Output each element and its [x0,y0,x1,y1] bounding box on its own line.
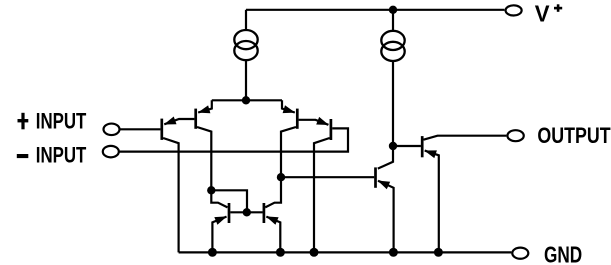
label + INPUT [18,109,87,134]
V+ terminal [506,5,522,15]
wire mirror output to Q7 base [281,176,374,178]
wire mirror bases [230,211,262,213]
- input terminal [103,146,119,158]
wire ground rail [179,251,512,253]
+ input terminal [104,124,120,136]
transistor Q6 (mirror right) [264,203,280,252]
node Q7 collector / I2 / Q8 base junction [389,142,397,150]
transistor Q5 (mirror left, diode-connected) [211,190,229,251]
svg-text:V: V [535,1,550,27]
svg-text:INPUT: INPUT [36,109,87,134]
wire -input to Q3 base [119,128,348,151]
transistor Q7 (driver) [376,146,394,252]
transistor Q1 (+input PNP) [162,119,195,253]
node Q7 emitter [389,248,398,257]
node mirror base junction [243,208,251,216]
node Q6 emitter [276,248,285,257]
svg-text:INPUT: INPUT [36,143,87,168]
wire input-stage emitter rail [212,99,282,101]
svg-text:GND: GND [544,242,582,265]
transistor Q4 (inner right PNP) [265,100,297,207]
label - INPUT [17,143,87,168]
label V+ [535,1,562,27]
node Q5 emitter [208,248,217,257]
node top-rail junction to right current source [389,6,397,14]
transistor Q8 (output) [422,136,506,252]
node Q3 collector [310,248,319,257]
svg-text:OUTPUT: OUTPUT [537,123,610,148]
output terminal [507,130,523,141]
node Q2 collector / mirror junction [207,186,215,194]
transistor Q2 (inner left PNP) [196,100,212,190]
transistor Q3 (-input PNP) [299,119,331,252]
current source I2 (right) [381,10,404,146]
current source I1 (left) [234,10,257,101]
wire Q2 collector to mirror base feed [211,190,247,212]
node mirror output / Q4 collector junction [277,173,285,181]
wire V+ top rail [246,9,504,11]
wire +input to Q1 base [120,128,161,130]
GND terminal [512,248,528,259]
node input rail / I1 junction [242,96,250,104]
node Q8 emitter [434,248,443,257]
wire Q8 base [393,145,421,147]
